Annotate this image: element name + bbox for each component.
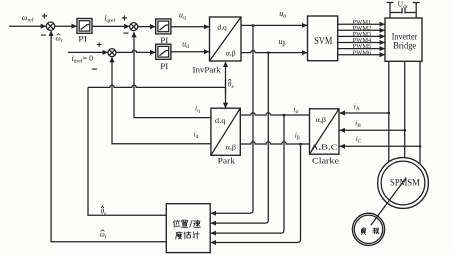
wire PWM6	[338, 54, 385, 56]
label PWM3	[353, 32, 372, 38]
node i_alpha tap	[283, 114, 285, 116]
label i_q	[195, 104, 200, 115]
label i_qref	[104, 13, 115, 24]
wire estimator input i_alpha	[211, 115, 284, 233]
label PI3	[160, 61, 168, 71]
svg-text:Park: Park	[218, 155, 236, 165]
label omega_r_hat bottom	[100, 230, 107, 241]
wire omega_r from estimator to S1	[51, 31, 166, 242]
svg-text:−: −	[41, 31, 47, 42]
wire DC bus right	[405, 3, 420, 19]
summing junction S2	[130, 23, 138, 31]
capacitor DC link	[402, 8, 405, 13]
svg-text:α,β: α,β	[316, 115, 327, 124]
wire i_beta Clarke to Park with hops	[240, 142, 309, 144]
label plus S1	[42, 12, 48, 23]
svg-text:InvPark: InvPark	[193, 65, 222, 75]
label PWM1	[353, 20, 372, 26]
label minus S1	[41, 31, 47, 42]
wire PI1 to S2	[92, 25, 129, 27]
node i_beta tap	[299, 143, 301, 145]
svg-text:PWM1: PWM1	[353, 20, 372, 26]
block PI2	[156, 19, 171, 34]
motor SPMSM	[378, 158, 429, 209]
svg-text:α,β: α,β	[226, 142, 237, 151]
label load (fuzai) glyphs	[361, 228, 378, 235]
load circle	[352, 213, 384, 245]
wire i_alpha Clarke to Park with hops	[240, 113, 309, 115]
wire S2 to PI2	[138, 26, 156, 28]
svg-text:+: +	[122, 14, 128, 25]
wire estimator input i_beta	[211, 144, 301, 243]
wire theta_e horizontal with hops	[88, 85, 226, 87]
wire PWM5	[338, 48, 385, 50]
label u_d	[182, 40, 189, 51]
wire u_alpha InvPark to SVM	[241, 24, 307, 26]
label U_dc	[398, 0, 409, 10]
wire phase B vertical	[404, 61, 406, 157]
block Clarke	[310, 109, 340, 154]
svg-text:PWM6: PWM6	[353, 50, 372, 56]
label Clarke	[312, 155, 339, 165]
svg-text:PWM4: PWM4	[353, 38, 372, 44]
label InvPark	[193, 65, 222, 75]
svg-text:α,β: α,β	[226, 48, 236, 57]
label omega_ref	[22, 13, 34, 24]
label estimator text line2	[176, 232, 200, 240]
wire theta_e from estimator	[88, 87, 166, 215]
label PWM4	[353, 38, 372, 44]
block estimator	[166, 204, 210, 253]
label theta_e_hat bottom	[101, 206, 108, 217]
wire i_C tap to Clarke	[340, 145, 420, 147]
wire omega_ref input	[9, 25, 46, 27]
block PI1	[77, 19, 92, 34]
label i_d	[194, 130, 199, 141]
wire i_dref input	[68, 51, 108, 53]
label PI2	[160, 35, 168, 45]
label estimator text line1	[173, 220, 200, 228]
block InvPark U1	[210, 17, 242, 61]
svg-text:PI: PI	[78, 34, 87, 44]
label u_alpha	[279, 9, 287, 19]
label i_dref = 0	[72, 54, 94, 65]
label minus S3	[92, 65, 98, 76]
wire u_beta InvPark to SVM with hop	[241, 50, 307, 52]
label omega_r_hat near S1	[56, 34, 63, 45]
node u_beta tap	[267, 52, 269, 54]
node i_A junction	[388, 112, 390, 114]
wire i_B tap to Clarke	[340, 129, 405, 131]
summing junction S3	[108, 49, 116, 57]
label minus S2	[123, 29, 129, 40]
label PWM6	[353, 50, 372, 56]
wire PWM1	[338, 23, 385, 25]
node i_B junction	[404, 129, 406, 131]
label i_C	[356, 134, 362, 145]
svg-text:−: −	[123, 29, 129, 40]
wire i_d Park to S3	[112, 57, 211, 144]
svg-text:PWM3: PWM3	[353, 32, 372, 38]
node i_C junction	[419, 145, 421, 147]
wire PI2 to InvPark u_q	[171, 26, 209, 28]
label i_beta	[295, 131, 300, 142]
wire S3 to PI3 with hop	[116, 50, 155, 52]
wire PWM4	[338, 42, 385, 44]
block Park	[211, 108, 240, 155]
wire theta_e vertical InvPark-Park double arrow	[225, 62, 227, 108]
svg-text:Clarke: Clarke	[312, 155, 339, 165]
wire estimator input u_beta	[211, 53, 268, 224]
svg-text:A,B,C: A,B,C	[311, 143, 338, 151]
summing junction S1	[46, 22, 54, 30]
label i_A	[354, 101, 360, 112]
wire estimator input u_alpha	[211, 25, 253, 213]
wire PWM3	[338, 35, 385, 37]
svg-text:Bridge: Bridge	[393, 40, 416, 50]
svg-text:PI: PI	[160, 61, 168, 71]
wire phase A vertical	[388, 61, 390, 162]
svg-text:d,q: d,q	[217, 22, 227, 31]
wire PI3 to InvPark u_d	[171, 51, 209, 53]
svg-text:+: +	[97, 40, 102, 50]
label theta_e_hat mid	[228, 79, 235, 90]
block Inverter Bridge	[385, 18, 422, 61]
wire S1 to PI1	[55, 25, 77, 27]
wire phase C vertical	[419, 61, 421, 164]
node u_alpha tap	[252, 24, 254, 26]
label plus S3	[97, 40, 102, 50]
block PI3	[156, 44, 171, 59]
label PWM5	[353, 44, 372, 50]
label plus S2	[122, 14, 128, 25]
wire PWM2	[338, 29, 385, 31]
wire i_q Park to S2	[134, 32, 211, 117]
wire i_A tap to Clarke	[340, 112, 389, 114]
wire motor to load shaft	[371, 178, 407, 226]
block SVM	[308, 16, 338, 61]
svg-text:PWM5: PWM5	[353, 44, 372, 50]
svg-text:d,q: d,q	[215, 116, 226, 125]
svg-text:+: +	[42, 12, 48, 23]
label u_beta	[279, 37, 286, 48]
wire DC bus left	[387, 3, 403, 19]
svg-text:PI: PI	[160, 35, 168, 45]
svg-text:PWM2: PWM2	[353, 26, 372, 32]
label i_alpha	[293, 105, 298, 116]
svg-text:SVM: SVM	[314, 36, 332, 47]
label PWM2	[353, 26, 372, 32]
label i_B	[355, 118, 361, 128]
svg-text:−: −	[92, 65, 98, 76]
label PI1	[78, 34, 87, 44]
label Park	[218, 155, 236, 165]
label u_q	[179, 11, 186, 22]
